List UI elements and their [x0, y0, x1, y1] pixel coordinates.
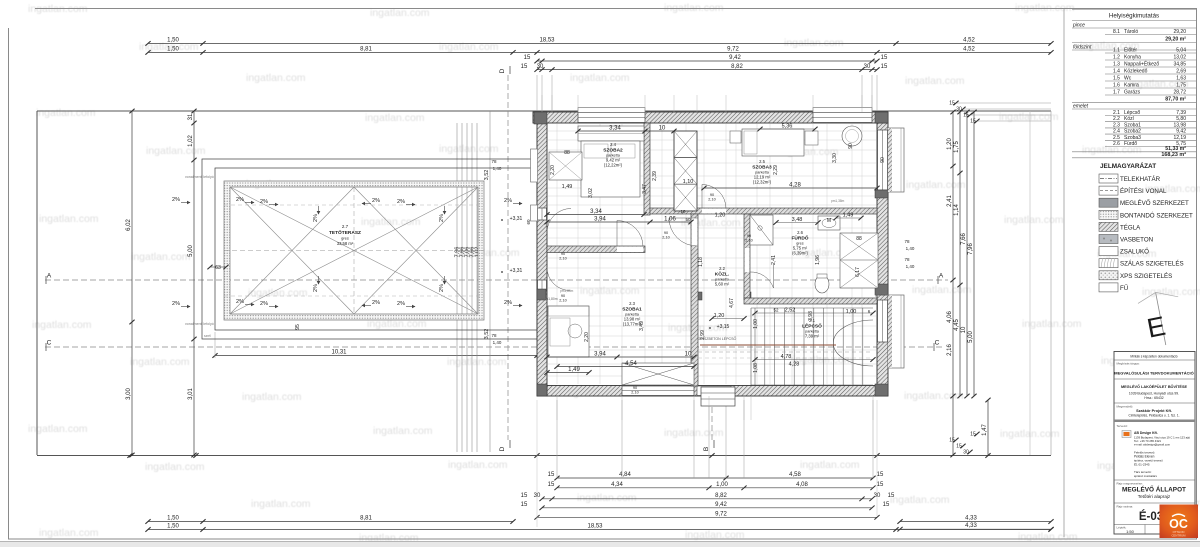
- svg-text:Tároló: Tároló: [1124, 29, 1138, 35]
- svg-text:88: 88: [856, 236, 862, 242]
- svg-text:7,66: 7,66: [961, 233, 967, 245]
- svg-text:90: 90: [561, 294, 565, 298]
- svg-text:Wc: Wc: [1124, 76, 1132, 82]
- svg-text:Közlekedő: Közlekedő: [1124, 69, 1148, 75]
- svg-text:4,28: 4,28: [789, 362, 800, 368]
- svg-text:D: D: [499, 68, 506, 73]
- svg-text:2%: 2%: [439, 284, 445, 292]
- svg-text:ingatlan.com: ingatlan.com: [1142, 286, 1200, 298]
- svg-text:2.3: 2.3: [629, 301, 635, 306]
- svg-text:2%: 2%: [313, 214, 319, 222]
- svg-text:2%: 2%: [397, 199, 405, 205]
- svg-text:10: 10: [961, 326, 967, 333]
- svg-text:ingatlan.com: ingatlan.com: [131, 251, 191, 263]
- svg-text:2,10: 2,10: [559, 257, 566, 261]
- svg-text:4,34: 4,34: [611, 482, 623, 488]
- svg-text:3,34: 3,34: [590, 209, 602, 215]
- svg-text:2.3: 2.3: [1113, 122, 1120, 128]
- svg-text:1.1: 1.1: [1113, 48, 1120, 54]
- svg-text:90: 90: [710, 193, 714, 197]
- svg-text:FÜRDŐ: FÜRDŐ: [791, 235, 808, 242]
- svg-text:1,49: 1,49: [843, 213, 854, 219]
- svg-text:5,04: 5,04: [1176, 48, 1186, 54]
- svg-text:1,40: 1,40: [906, 246, 915, 251]
- svg-text:4,33: 4,33: [965, 523, 977, 529]
- svg-text:90: 90: [561, 252, 565, 256]
- svg-text:88: 88: [564, 150, 570, 156]
- svg-text:1.4: 1.4: [1113, 69, 1120, 75]
- svg-text:1,14: 1,14: [954, 204, 960, 216]
- svg-text:15: 15: [877, 472, 884, 478]
- svg-text:5,36: 5,36: [782, 124, 793, 130]
- svg-text:3,00: 3,00: [126, 388, 132, 400]
- svg-text:15: 15: [548, 482, 555, 488]
- svg-text:8,82: 8,82: [715, 493, 727, 499]
- svg-text:1,20: 1,20: [715, 213, 726, 219]
- svg-text:1039 Budapest, Hunyadi utca 99: 1039 Budapest, Hunyadi utca 99.: [1129, 392, 1179, 396]
- svg-text:1,06: 1,06: [664, 217, 676, 223]
- svg-text:31: 31: [188, 113, 194, 120]
- svg-text:3,94: 3,94: [594, 217, 606, 223]
- svg-text:ZSALUKŐ: ZSALUKŐ: [1120, 249, 1149, 256]
- svg-text:Tervező:: Tervező:: [1117, 424, 1129, 428]
- svg-text:vonalmenti lefolyó: vonalmenti lefolyó: [185, 322, 214, 326]
- svg-text:5,00: 5,00: [968, 331, 974, 343]
- svg-text:3,01: 3,01: [188, 388, 194, 400]
- svg-text:OC: OC: [1169, 517, 1188, 531]
- svg-text:pince: pince: [1072, 23, 1085, 29]
- svg-text:A: A: [939, 273, 944, 280]
- svg-text:10,31: 10,31: [331, 350, 347, 356]
- svg-text:ingatlan.com: ingatlan.com: [248, 287, 308, 299]
- svg-text:2.5: 2.5: [1113, 135, 1120, 141]
- svg-text:földszint: földszint: [1073, 45, 1092, 51]
- svg-text:AB Design Kft.: AB Design Kft.: [1134, 431, 1158, 435]
- svg-text:15: 15: [548, 472, 555, 478]
- svg-text:15: 15: [963, 113, 969, 119]
- svg-text:2,16: 2,16: [947, 344, 953, 356]
- svg-text:28,72: 28,72: [1173, 90, 1186, 96]
- svg-text:63: 63: [215, 265, 221, 271]
- svg-text:29,20 m²: 29,20 m²: [1165, 37, 1186, 43]
- svg-text:1.3: 1.3: [1113, 62, 1120, 68]
- svg-text:9,42: 9,42: [1176, 129, 1186, 135]
- svg-text:2%: 2%: [397, 301, 405, 307]
- svg-text:JELMAGYARÁZAT: JELMAGYARÁZAT: [1100, 161, 1156, 170]
- svg-text:1,02: 1,02: [188, 135, 194, 147]
- svg-text:4,28: 4,28: [789, 183, 801, 189]
- svg-text:Lépcső: Lépcső: [1124, 110, 1140, 116]
- svg-text:1,96: 1,96: [815, 255, 821, 265]
- svg-text:Szoba2: Szoba2: [1124, 129, 1141, 135]
- svg-text:78: 78: [904, 257, 910, 262]
- svg-text:1.6: 1.6: [1113, 83, 1120, 89]
- svg-text:SZÁLAS SZIGETELÉS: SZÁLAS SZIGETELÉS: [1120, 261, 1184, 268]
- svg-text:ingatlan.com: ingatlan.com: [448, 459, 508, 471]
- svg-text:ingatlan.com: ingatlan.com: [361, 216, 421, 228]
- svg-text:ingatlan.com: ingatlan.com: [36, 107, 96, 119]
- svg-text:7,39: 7,39: [1176, 110, 1186, 116]
- svg-text:4,78: 4,78: [781, 354, 792, 360]
- svg-text:15: 15: [888, 493, 895, 499]
- svg-text:Tetőtéri alaprajz: Tetőtéri alaprajz: [1138, 494, 1171, 499]
- svg-text:TELEKHATÁR: TELEKHATÁR: [1120, 176, 1161, 183]
- svg-text:1,50: 1,50: [167, 38, 179, 44]
- svg-text:2%: 2%: [504, 198, 512, 204]
- svg-text:78: 78: [491, 159, 497, 164]
- svg-text:5,60 m²: 5,60 m²: [715, 282, 730, 287]
- svg-text:ingatlan.com: ingatlan.com: [890, 494, 950, 506]
- svg-text:ingatlan.com: ingatlan.com: [373, 425, 433, 437]
- svg-text:4,84: 4,84: [619, 472, 631, 478]
- svg-text:KÖZL.: KÖZL.: [715, 271, 729, 278]
- svg-text:2.4: 2.4: [610, 142, 616, 147]
- svg-text:ingatlan.com: ingatlan.com: [1022, 318, 1082, 330]
- svg-text:szrél: szrél: [204, 334, 211, 338]
- svg-text:ingatlan.com: ingatlan.com: [39, 213, 99, 225]
- svg-text:10: 10: [685, 352, 692, 358]
- svg-text:2%: 2%: [504, 300, 512, 306]
- svg-text:4,52: 4,52: [963, 38, 975, 44]
- svg-text:33,58 m²: 33,58 m²: [337, 241, 354, 246]
- svg-text:+3,31: +3,31: [510, 216, 523, 222]
- svg-text:1,49: 1,49: [568, 367, 580, 373]
- svg-text:Hrsz.: 65432: Hrsz.: 65432: [1144, 396, 1163, 400]
- svg-text:3,52: 3,52: [484, 170, 490, 181]
- svg-text:emelet: emelet: [1073, 104, 1089, 110]
- svg-text:Szoba1: Szoba1: [1124, 122, 1141, 128]
- svg-text:3,02: 3,02: [588, 188, 594, 198]
- svg-text:4,06: 4,06: [947, 311, 953, 323]
- svg-text:pm1,80m: pm1,80m: [875, 293, 889, 297]
- svg-text:15: 15: [521, 493, 528, 499]
- svg-text:1,08: 1,08: [753, 363, 759, 373]
- svg-text:2%: 2%: [172, 197, 180, 203]
- svg-text:15: 15: [949, 438, 955, 444]
- svg-text:2%: 2%: [372, 198, 380, 204]
- svg-text:ingatlan.com: ingatlan.com: [912, 284, 972, 296]
- svg-text:3,48: 3,48: [792, 217, 803, 223]
- svg-text:6,17: 6,17: [855, 267, 861, 277]
- svg-text:90: 90: [880, 157, 886, 163]
- svg-text:60: 60: [526, 219, 531, 225]
- svg-text:Kamra: Kamra: [1124, 83, 1139, 89]
- svg-text:ingatlan.com: ingatlan.com: [439, 41, 499, 53]
- svg-text:ingatlan.com: ingatlan.com: [1004, 214, 1064, 226]
- svg-text:(6,39m²): (6,39m²): [792, 251, 808, 256]
- svg-text:pm1,38m: pm1,38m: [831, 199, 845, 203]
- svg-text:1,18: 1,18: [698, 257, 704, 267]
- svg-text:MEGLÉVŐ ÁLLAPOT: MEGLÉVŐ ÁLLAPOT: [1122, 485, 1186, 494]
- svg-text:1.7: 1.7: [1113, 90, 1120, 96]
- svg-text:M: M: [827, 218, 831, 224]
- svg-text:2,41: 2,41: [771, 255, 777, 265]
- svg-text:Közl: Közl: [1124, 116, 1134, 122]
- svg-text:8,81: 8,81: [360, 516, 372, 522]
- svg-text:4,08: 4,08: [796, 482, 808, 488]
- svg-text:Szoba3: Szoba3: [1124, 135, 1141, 141]
- svg-text:ÉPÍTÉSI VONAL: ÉPÍTÉSI VONAL: [1120, 188, 1167, 195]
- svg-text:2%: 2%: [372, 300, 380, 306]
- svg-text:87,70 m²: 87,70 m²: [1165, 96, 1186, 102]
- svg-text:2,10: 2,10: [745, 239, 752, 243]
- svg-text:1,75: 1,75: [1176, 83, 1186, 89]
- svg-text:pm1,80m: pm1,80m: [560, 289, 574, 293]
- svg-text:4,58: 4,58: [789, 472, 801, 478]
- svg-text:1.5: 1.5: [1113, 76, 1120, 82]
- svg-text:15: 15: [881, 64, 888, 70]
- svg-text:ingatlan.com: ingatlan.com: [906, 179, 966, 191]
- svg-text:15: 15: [877, 482, 884, 488]
- svg-text:ingatlan.com: ingatlan.com: [905, 75, 965, 87]
- svg-text:15: 15: [521, 64, 528, 70]
- svg-text:10: 10: [680, 209, 686, 214]
- svg-text:É1 01-2345: É1 01-2345: [1134, 462, 1150, 467]
- svg-text:18,53: 18,53: [539, 38, 555, 44]
- svg-text:2,52: 2,52: [785, 308, 796, 314]
- svg-text:2,20: 2,20: [584, 332, 590, 342]
- svg-text:15: 15: [956, 444, 962, 450]
- svg-text:C: C: [47, 340, 52, 347]
- svg-text:ingatlan.com: ingatlan.com: [570, 72, 630, 84]
- svg-text:2,39: 2,39: [652, 171, 658, 181]
- svg-text:építész munkatárs: építész munkatárs: [1134, 474, 1157, 478]
- svg-text:5,80: 5,80: [1176, 116, 1186, 122]
- svg-text:FŰ: FŰ: [1120, 285, 1128, 292]
- svg-text:2,69: 2,69: [1176, 69, 1186, 75]
- svg-text:2,29: 2,29: [773, 165, 779, 175]
- svg-text:8,81: 8,81: [360, 47, 372, 53]
- svg-text:78: 78: [904, 239, 910, 244]
- svg-text:Helyiségkimutatás: Helyiségkimutatás: [1109, 13, 1159, 20]
- svg-text:1,40: 1,40: [493, 166, 502, 171]
- svg-text:Minták s képzelten dokumentáci: Minták s képzelten dokumentáció: [1130, 355, 1177, 359]
- svg-text:8.1: 8.1: [1113, 29, 1120, 35]
- svg-text:2.5: 2.5: [759, 159, 765, 164]
- svg-text:1,20: 1,20: [947, 138, 953, 150]
- svg-text:2%: 2%: [260, 199, 268, 205]
- svg-text:2,10: 2,10: [708, 198, 715, 202]
- svg-text:Címtelepülés, Példautca u. 1.: Címtelepülés, Példautca u. 1. fsz. 1.: [1128, 414, 1179, 418]
- svg-text:gres: gres: [341, 236, 349, 241]
- svg-text:ingatlan.com: ingatlan.com: [800, 459, 860, 471]
- svg-text:9,42: 9,42: [729, 55, 741, 61]
- svg-text:ingatlan.com: ingatlan.com: [577, 492, 637, 504]
- svg-text:15: 15: [524, 55, 531, 61]
- svg-text:2%: 2%: [313, 284, 319, 292]
- svg-text:1,00: 1,00: [753, 319, 759, 329]
- svg-text:ingatlan.com: ingatlan.com: [251, 498, 311, 510]
- svg-text:15: 15: [881, 55, 888, 61]
- svg-text:(12,32m²): (12,32m²): [753, 180, 772, 185]
- svg-text:TÉGLA: TÉGLA: [1120, 224, 1141, 231]
- svg-text:2,10: 2,10: [559, 299, 566, 303]
- svg-text:ingatlan.com: ingatlan.com: [32, 319, 92, 331]
- svg-text:2,41: 2,41: [947, 195, 953, 207]
- svg-text:50: 50: [685, 217, 691, 222]
- svg-text:9,42: 9,42: [715, 502, 727, 508]
- svg-text:1,50: 1,50: [167, 47, 179, 53]
- svg-text:78: 78: [491, 333, 497, 338]
- svg-text:30: 30: [864, 64, 871, 70]
- svg-text:MEGVALÓSULÁSI TERVDOKUMENTÁCIÓ: MEGVALÓSULÁSI TERVDOKUMENTÁCIÓ: [1114, 371, 1193, 376]
- svg-text:Garázs: Garázs: [1124, 90, 1141, 96]
- svg-text:2.7: 2.7: [342, 224, 349, 229]
- svg-text:4,54: 4,54: [625, 361, 637, 367]
- svg-text:ingatlan.com: ingatlan.com: [246, 72, 306, 84]
- svg-text:+3,15: +3,15: [717, 324, 730, 330]
- svg-text:vonalmenti lefolyó: vonalmenti lefolyó: [185, 175, 214, 179]
- svg-text:18,53: 18,53: [587, 524, 603, 530]
- svg-text:4,52: 4,52: [963, 47, 975, 53]
- svg-text:2,10: 2,10: [662, 236, 669, 240]
- svg-text:XPS SZIGETELÉS: XPS SZIGETELÉS: [1120, 273, 1172, 280]
- svg-text:90: 90: [848, 143, 854, 149]
- svg-text:ingatlan.com: ingatlan.com: [146, 145, 206, 157]
- svg-text:95: 95: [295, 324, 301, 330]
- svg-text:1,20: 1,20: [714, 313, 725, 319]
- svg-text:Nappali+Étkező: Nappali+Étkező: [1124, 61, 1159, 68]
- svg-text:ingatlan.com: ingatlan.com: [145, 461, 205, 473]
- svg-text:15: 15: [521, 502, 528, 508]
- svg-text:90: 90: [664, 231, 668, 235]
- svg-text:+3,31: +3,31: [510, 268, 523, 274]
- svg-text:34,85: 34,85: [1173, 62, 1186, 68]
- svg-text:Rajz megnevezése:: Rajz megnevezése:: [1117, 482, 1144, 486]
- svg-text:1,49: 1,49: [562, 184, 573, 190]
- svg-text:1,40: 1,40: [493, 340, 502, 345]
- svg-text:90: 90: [633, 386, 637, 390]
- svg-text:3,94: 3,94: [594, 352, 606, 358]
- svg-text:ingatlan.com: ingatlan.com: [242, 391, 302, 403]
- svg-text:7,96: 7,96: [968, 243, 974, 255]
- svg-text:15: 15: [970, 119, 976, 125]
- svg-text:D: D: [499, 446, 506, 451]
- svg-text:Rajz száma:: Rajz száma:: [1117, 505, 1134, 509]
- svg-text:CENTRUM: CENTRUM: [1172, 534, 1187, 538]
- svg-text:30: 30: [963, 450, 969, 456]
- svg-text:8,82: 8,82: [731, 64, 743, 70]
- svg-text:4,45: 4,45: [954, 319, 960, 331]
- svg-text:VASBETON: VASBETON: [1120, 237, 1153, 244]
- svg-text:ingatlan.com: ingatlan.com: [580, 285, 640, 297]
- svg-text:1,00: 1,00: [716, 482, 728, 488]
- svg-text:30: 30: [874, 493, 881, 499]
- svg-text:1,40: 1,40: [906, 264, 915, 269]
- svg-text:2.4: 2.4: [1113, 129, 1120, 135]
- svg-text:Lépték:: Lépték:: [1117, 526, 1127, 530]
- svg-text:2%: 2%: [236, 299, 244, 305]
- svg-text:Megrendelő:: Megrendelő:: [1117, 405, 1134, 409]
- svg-text:BONTANDÓ SZERKEZET: BONTANDÓ SZERKEZET: [1120, 212, 1193, 219]
- svg-text:12,19: 12,19: [1173, 135, 1186, 141]
- svg-text:C: C: [935, 340, 940, 347]
- svg-text:15: 15: [883, 502, 890, 508]
- svg-text:Megbízás tárgya:: Megbízás tárgya:: [1117, 362, 1140, 366]
- svg-text:30: 30: [537, 64, 544, 70]
- svg-text:ingatlan.com: ingatlan.com: [793, 354, 853, 366]
- svg-text:2%: 2%: [236, 197, 244, 203]
- svg-text:MEGLÉVŐ SZERKEZET: MEGLÉVŐ SZERKEZET: [1120, 200, 1189, 207]
- svg-text:13,98: 13,98: [1173, 122, 1186, 128]
- svg-text:A: A: [47, 273, 52, 280]
- svg-text:1,00: 1,00: [846, 309, 857, 315]
- svg-text:15: 15: [970, 432, 976, 438]
- svg-text:1,10: 1,10: [683, 179, 694, 185]
- svg-text:168,23 m²: 168,23 m²: [1161, 152, 1186, 158]
- svg-text:1,50: 1,50: [167, 516, 179, 522]
- svg-text:90: 90: [747, 234, 751, 238]
- svg-text:GIPSZBETON LÉPCSŐ: GIPSZBETON LÉPCSŐ: [698, 336, 737, 341]
- svg-text:4,33: 4,33: [965, 516, 977, 522]
- svg-text:52: 52: [773, 308, 779, 313]
- svg-text:2.6: 2.6: [797, 230, 803, 235]
- svg-text:2.2: 2.2: [719, 266, 725, 271]
- svg-text:15: 15: [949, 101, 955, 107]
- svg-text:1.2: 1.2: [1113, 55, 1120, 61]
- svg-text:1:50: 1:50: [1126, 529, 1135, 534]
- svg-text:ingatlan.com: ingatlan.com: [784, 37, 844, 49]
- svg-text:9,72: 9,72: [715, 512, 727, 518]
- svg-text:2.6: 2.6: [1113, 141, 1120, 147]
- svg-text:ingatlan.com: ingatlan.com: [39, 527, 99, 539]
- svg-text:e-mail: abdesign@gmail.com: e-mail: abdesign@gmail.com: [1134, 443, 1171, 447]
- svg-text:1,50: 1,50: [167, 524, 179, 530]
- svg-text:Szakkör Projekt Kft.: Szakkör Projekt Kft.: [1136, 409, 1172, 413]
- svg-text:ingatlan.com: ingatlan.com: [904, 390, 964, 402]
- svg-text:1,47: 1,47: [982, 424, 988, 436]
- svg-text:sz.m1,80m: sz.m1,80m: [541, 297, 558, 301]
- svg-text:2%: 2%: [439, 214, 445, 222]
- svg-text:3,47: 3,47: [642, 184, 648, 194]
- svg-text:3,34: 3,34: [609, 126, 621, 132]
- svg-text:13,02: 13,02: [1173, 55, 1186, 61]
- svg-text:(12,22m²): (12,22m²): [604, 163, 623, 168]
- svg-text:2.1: 2.1: [1113, 110, 1120, 116]
- svg-text:30: 30: [534, 493, 541, 499]
- svg-text:Fürdő: Fürdő: [1124, 141, 1137, 147]
- svg-text:5,00: 5,00: [188, 245, 194, 257]
- svg-text:3,98: 3,98: [808, 311, 814, 321]
- svg-text:30: 30: [956, 107, 962, 113]
- svg-text:3,30: 3,30: [832, 153, 838, 163]
- svg-text:3,49: 3,49: [639, 321, 645, 331]
- svg-text:MEGLÉVŐ LAKÓÉPÜLET BŐVÍTÉSE: MEGLÉVŐ LAKÓÉPÜLET BŐVÍTÉSE: [1121, 384, 1187, 389]
- svg-text:10: 10: [659, 126, 666, 132]
- svg-text:Konyha: Konyha: [1124, 55, 1141, 61]
- svg-text:2.2: 2.2: [1113, 116, 1120, 122]
- svg-text:6,02: 6,02: [126, 219, 132, 231]
- svg-text:2%: 2%: [172, 301, 180, 307]
- svg-text:29,20: 29,20: [1173, 29, 1186, 35]
- svg-text:ingatlan.com: ingatlan.com: [365, 112, 425, 124]
- svg-text:4,67: 4,67: [729, 298, 735, 308]
- svg-text:2,10: 2,10: [631, 391, 638, 395]
- svg-text:9,72: 9,72: [727, 47, 739, 53]
- svg-text:1,75: 1,75: [954, 141, 960, 153]
- svg-text:7,39 m²: 7,39 m²: [805, 334, 820, 339]
- svg-text:Előtér: Előtér: [1124, 48, 1137, 54]
- svg-text:ingatlan.com: ingatlan.com: [130, 356, 190, 368]
- svg-text:2%: 2%: [260, 301, 268, 307]
- svg-text:2,20: 2,20: [550, 165, 556, 175]
- svg-text:1,63: 1,63: [1176, 76, 1186, 82]
